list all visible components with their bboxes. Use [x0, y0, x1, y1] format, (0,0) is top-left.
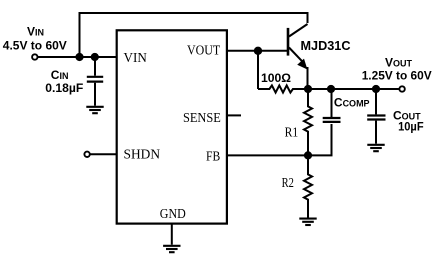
svg-text:VIN: VIN	[124, 51, 147, 66]
svg-text:VIN: VIN	[27, 25, 44, 39]
terminal VIN input	[32, 54, 37, 59]
resistor 100ohm	[258, 85, 308, 92]
wire VOUT pin to transistor base	[227, 50, 288, 52]
terminal VOUT output	[399, 86, 404, 91]
terminal SHDN input	[84, 152, 89, 157]
ground CIN	[86, 107, 103, 113]
wire FB pin to node	[227, 154, 308, 156]
wire top rail from VIN node to collector	[80, 13, 308, 57]
svg-text:MJD31C: MJD31C	[301, 39, 351, 53]
svg-text:SHDN: SHDN	[124, 148, 161, 163]
svg-text:4.5V to 60V: 4.5V to 60V	[3, 39, 67, 53]
svg-text:GND: GND	[160, 207, 186, 222]
node VOUT junction	[254, 47, 262, 55]
svg-text:R1: R1	[285, 126, 299, 141]
node CCOMP junction	[327, 85, 335, 93]
wire FB node to Ccomp	[308, 124, 332, 155]
svg-text:10µF: 10µF	[398, 120, 424, 134]
node COUT junction	[372, 85, 380, 93]
svg-text:0.18µF: 0.18µF	[45, 81, 83, 95]
svg-text:FB: FB	[206, 150, 220, 165]
node emitter junction	[304, 85, 312, 93]
IC regulator box	[117, 30, 227, 223]
resistor R1	[304, 89, 312, 155]
capacitor CIN	[87, 57, 103, 106]
capacitor CCOMP	[323, 89, 341, 122]
svg-text:VOUT: VOUT	[187, 44, 221, 59]
node VIN junction 1	[75, 53, 83, 61]
node FB junction	[304, 151, 312, 159]
svg-text:SENSE: SENSE	[183, 111, 221, 126]
wire VIN input	[38, 56, 116, 58]
wire output rail to VOUT terminal	[308, 88, 399, 90]
wire VOUT node down to 100ohm	[257, 51, 259, 89]
svg-text:100Ω: 100Ω	[261, 71, 291, 85]
transistor Q1 MJD31C	[288, 24, 308, 89]
ground COUT	[367, 145, 384, 151]
svg-text:VOUT: VOUT	[385, 56, 413, 70]
svg-text:1.25V to 60V: 1.25V to 60V	[362, 69, 432, 83]
ground IC GND	[163, 246, 180, 252]
capacitor COUT	[367, 89, 385, 144]
node VIN junction 2	[91, 53, 99, 61]
wire SENSE pin stub	[227, 114, 241, 116]
wire SHDN input	[90, 153, 116, 155]
resistor R2	[304, 155, 312, 217]
svg-text:R2: R2	[282, 176, 294, 191]
wire GND pin down	[171, 225, 173, 245]
ground R2	[299, 219, 316, 225]
svg-text:CCOMP: CCOMP	[334, 96, 370, 110]
